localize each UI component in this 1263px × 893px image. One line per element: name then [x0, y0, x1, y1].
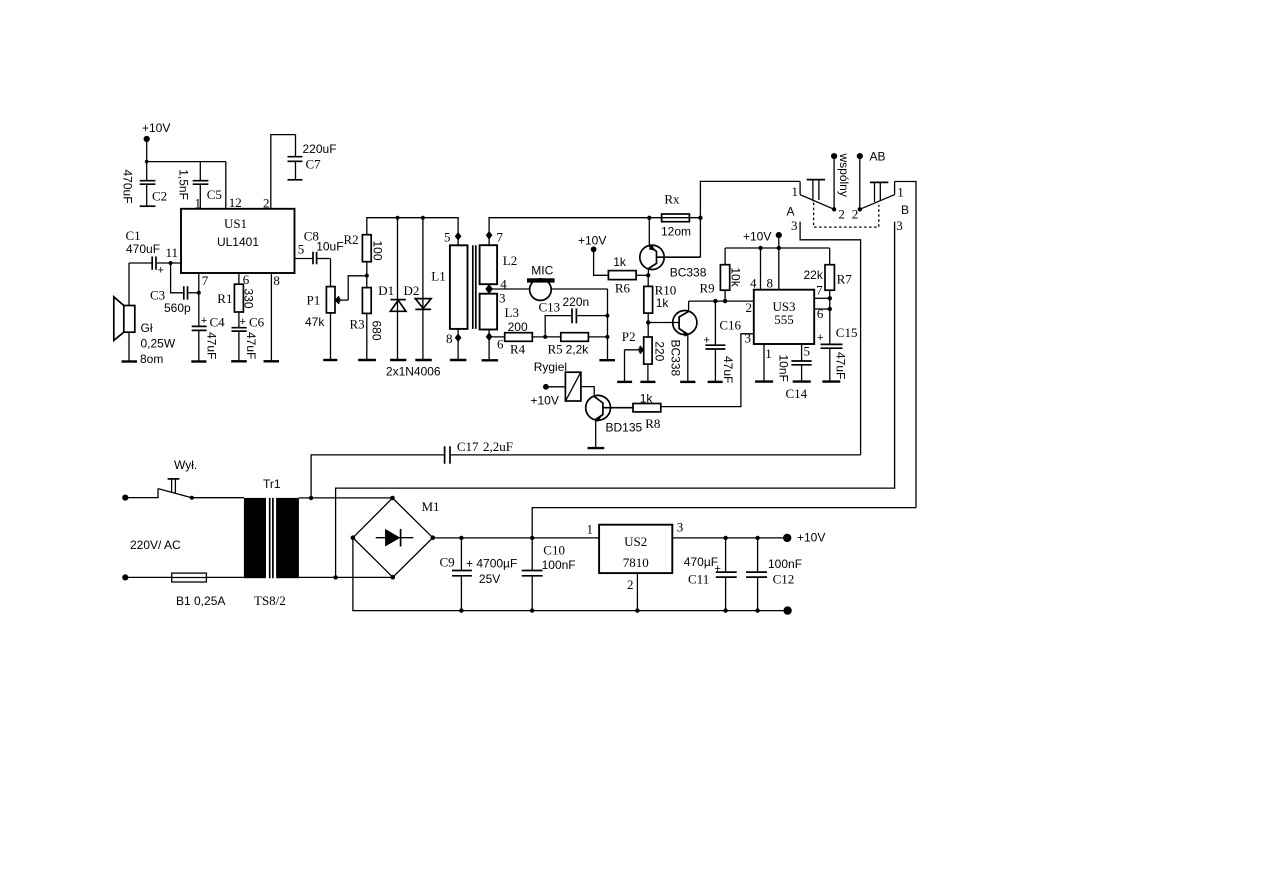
wire pin 6	[238, 273, 240, 284]
terminal +10V output	[783, 531, 825, 545]
junction	[530, 536, 534, 540]
resistor R6	[608, 255, 648, 296]
svg-text:1: 1	[587, 521, 594, 536]
wire B3 riser	[894, 222, 896, 489]
wire positive rail	[433, 537, 599, 539]
speaker Gl	[114, 297, 176, 366]
svg-text:470µF: 470µF	[684, 555, 718, 569]
ground	[191, 360, 206, 362]
resistor R8	[633, 392, 661, 431]
svg-text:5: 5	[804, 343, 811, 358]
svg-text:MIC: MIC	[531, 264, 553, 278]
dashed mechanical link	[814, 203, 879, 228]
svg-text:555: 555	[774, 312, 794, 327]
svg-text:L3: L3	[505, 305, 519, 320]
svg-text:wspólny: wspólny	[837, 153, 851, 197]
ground	[450, 359, 467, 361]
fuse B1	[172, 573, 226, 608]
junction base BC338 second	[646, 320, 650, 324]
svg-text:220: 220	[653, 341, 667, 361]
svg-text:R8: R8	[645, 416, 660, 431]
svg-text:P1: P1	[307, 293, 321, 308]
wire mic branch down	[607, 289, 609, 360]
svg-text:US1: US1	[224, 216, 247, 231]
svg-text:11: 11	[166, 245, 179, 260]
svg-text:47uF: 47uF	[834, 352, 848, 379]
junction pin4	[758, 246, 762, 250]
svg-text:1,5nF: 1,5nF	[177, 169, 191, 200]
svg-text:+10V: +10V	[797, 531, 825, 545]
junction	[723, 536, 727, 540]
transformer winding L2	[480, 229, 518, 284]
junction C16	[713, 299, 717, 303]
capacitor C14	[776, 343, 811, 401]
svg-text:P2: P2	[622, 329, 636, 344]
capacitor C15	[817, 298, 857, 381]
svg-text:2: 2	[852, 207, 859, 222]
svg-text:M1: M1	[422, 499, 440, 514]
svg-text:+10V: +10V	[743, 230, 771, 244]
junction R2/R3	[365, 274, 369, 278]
svg-text:R3: R3	[350, 317, 365, 332]
svg-text:47uF: 47uF	[244, 332, 258, 359]
resistor R7	[804, 248, 853, 298]
svg-text:Wył.: Wył.	[174, 458, 197, 472]
capacitor C1	[126, 228, 164, 277]
capacitor C6	[232, 315, 265, 362]
capacitor C17	[445, 439, 861, 464]
wire riser to C17	[311, 455, 444, 498]
svg-text:+: +	[704, 335, 710, 347]
svg-text:0,25W: 0,25W	[141, 337, 176, 351]
svg-text:D2: D2	[404, 283, 420, 298]
wire pin 8	[270, 273, 272, 361]
svg-text:+: +	[715, 563, 721, 575]
ground	[755, 380, 773, 382]
ground	[231, 360, 247, 362]
svg-text:5: 5	[298, 242, 305, 257]
junction base BC338	[646, 273, 650, 277]
svg-text:BC338: BC338	[668, 340, 682, 377]
svg-text:+: +	[201, 315, 207, 327]
wire B1 to raw supply riser	[895, 182, 916, 508]
svg-text:R7: R7	[837, 271, 853, 286]
wire	[238, 312, 240, 327]
switch B	[852, 182, 909, 234]
terminal negative output	[783, 606, 791, 614]
wire	[206, 576, 244, 578]
svg-text:2: 2	[627, 577, 634, 592]
svg-text:Tr1: Tr1	[263, 477, 281, 491]
junction	[197, 291, 201, 295]
capacitor C4	[192, 315, 225, 362]
svg-text:560p: 560p	[164, 301, 191, 315]
transformer winding L3	[480, 294, 519, 360]
junction	[605, 314, 609, 318]
resistor R9	[700, 248, 743, 301]
svg-text:R6: R6	[615, 281, 631, 296]
ground	[588, 447, 605, 449]
wire switch lead-in	[125, 489, 158, 498]
capacitor C11	[684, 538, 737, 611]
svg-text:1k: 1k	[640, 392, 654, 406]
ground	[599, 359, 615, 361]
svg-text:1: 1	[765, 346, 772, 361]
pin 3 wire to R8	[661, 334, 754, 407]
svg-text:7: 7	[497, 229, 504, 244]
svg-text:3: 3	[499, 291, 506, 306]
svg-text:+: +	[817, 332, 823, 344]
junction pin7	[828, 296, 832, 300]
pin 7 wire	[814, 297, 830, 299]
wire	[147, 161, 226, 163]
svg-text:+10V: +10V	[142, 121, 170, 135]
capacitor C7	[288, 135, 337, 180]
svg-text:22k: 22k	[804, 268, 824, 282]
pin 11 wire	[157, 262, 181, 264]
switch A	[787, 180, 845, 233]
svg-text:C11: C11	[688, 572, 709, 587]
svg-text:Rygiel: Rygiel	[534, 360, 567, 374]
wire secondary top	[299, 497, 393, 499]
capacitor C16	[704, 301, 742, 383]
ground	[482, 359, 499, 361]
transistor Q1 BC338 (oscillator)	[640, 218, 707, 280]
wire collector riser	[700, 181, 800, 257]
capacitor C5	[177, 162, 222, 209]
svg-text:A: A	[787, 205, 795, 219]
relay Rygiel	[534, 360, 595, 401]
svg-text:12: 12	[229, 195, 242, 210]
wire pin 2	[636, 573, 638, 611]
svg-text:C9: C9	[440, 555, 455, 570]
svg-text:L2: L2	[503, 253, 517, 268]
resistor R1	[217, 284, 255, 312]
ground	[264, 360, 280, 362]
ground	[358, 359, 376, 361]
svg-text:R5: R5	[548, 342, 563, 357]
svg-text:6: 6	[817, 306, 824, 321]
potentiometer P1	[305, 276, 367, 360]
svg-text:2: 2	[746, 300, 753, 315]
svg-text:680: 680	[369, 321, 383, 341]
svg-text:8: 8	[767, 276, 774, 291]
svg-text:7: 7	[202, 273, 209, 288]
svg-text:7: 7	[816, 282, 823, 297]
svg-text:C14: C14	[786, 386, 808, 401]
svg-text:220uF: 220uF	[303, 142, 337, 156]
svg-text:2,2uF: 2,2uF	[483, 439, 513, 454]
wire pin 12	[225, 162, 227, 209]
wire	[125, 576, 171, 578]
svg-text:R1: R1	[217, 291, 232, 306]
terminal dot mains bottom	[122, 574, 128, 580]
pin 1 wire	[763, 344, 765, 381]
op-amp U1 box: IC US1 UL1401	[181, 209, 295, 273]
wire pin 2	[271, 135, 296, 209]
svg-text:2x1N4006: 2x1N4006	[386, 365, 441, 379]
wire R10	[647, 275, 649, 286]
svg-text:10uF: 10uF	[316, 239, 343, 253]
svg-text:1: 1	[792, 184, 799, 199]
terminal dot mains top	[122, 495, 128, 501]
capacitor C3	[150, 286, 199, 315]
resistor R10	[644, 283, 676, 337]
svg-text:R4: R4	[510, 342, 526, 357]
svg-text:10nF: 10nF	[776, 355, 790, 382]
wire C3 branch	[171, 263, 183, 293]
junction	[530, 608, 534, 612]
node wspolny A	[831, 153, 837, 209]
svg-text:12om: 12om	[661, 224, 691, 238]
svg-text:3: 3	[791, 218, 798, 233]
svg-text:5: 5	[444, 230, 451, 245]
svg-text:C2: C2	[152, 189, 167, 204]
svg-text:C12: C12	[773, 572, 795, 587]
svg-text:C16: C16	[719, 318, 741, 333]
transistor Q2 BC338 (keying)	[668, 301, 697, 382]
bridge rectifier M1	[351, 496, 440, 580]
capacitor C13	[539, 295, 608, 337]
microphone MIC	[527, 264, 555, 301]
svg-text:3: 3	[677, 519, 684, 534]
junction	[755, 536, 759, 540]
svg-text:220V/ AC: 220V/ AC	[130, 538, 181, 552]
svg-text:470uF: 470uF	[126, 242, 160, 256]
capacitor C2	[121, 162, 168, 207]
svg-text:C1: C1	[126, 228, 141, 243]
node +10V (R6)	[578, 234, 608, 276]
junction	[309, 496, 313, 500]
junction Rx right	[698, 216, 702, 220]
svg-text:UL1401: UL1401	[217, 235, 259, 249]
junction	[459, 608, 463, 612]
wire output rail	[672, 537, 784, 539]
diode D2	[404, 218, 432, 360]
svg-text:330: 330	[242, 289, 256, 309]
ground	[793, 380, 811, 382]
svg-text:+ 4700µF: + 4700µF	[466, 557, 517, 571]
junction D1 top	[396, 216, 400, 220]
junction	[635, 608, 639, 612]
wire A3 riser (C17 to switch A)	[800, 222, 861, 455]
transistor Q3 BD135	[586, 395, 643, 448]
svg-text:8: 8	[273, 273, 280, 288]
svg-text:1k: 1k	[656, 296, 670, 310]
svg-text:200: 200	[508, 320, 528, 334]
wire top rail (primary)	[367, 218, 458, 246]
svg-text:AB: AB	[870, 150, 886, 164]
ground	[122, 360, 138, 362]
wire pin 4	[760, 248, 762, 290]
node +10V (relay)	[531, 384, 566, 408]
svg-text:7810: 7810	[623, 555, 649, 570]
svg-text:C3: C3	[150, 288, 165, 303]
capacitor C8	[304, 228, 344, 264]
svg-text:47k: 47k	[305, 315, 325, 329]
svg-text:2: 2	[838, 206, 845, 221]
svg-text:B1 0,25A: B1 0,25A	[176, 594, 225, 608]
junction R9	[723, 299, 727, 303]
junction pin8	[777, 246, 781, 250]
svg-text:R2: R2	[344, 232, 359, 247]
junction	[755, 608, 759, 612]
wire pin 7	[198, 273, 200, 326]
svg-text:2,2k: 2,2k	[566, 343, 590, 357]
transformer Tr1	[244, 477, 299, 608]
svg-text:+: +	[240, 316, 246, 328]
transformer winding L1	[431, 230, 467, 360]
svg-text:47uF: 47uF	[721, 356, 735, 383]
svg-text:4: 4	[750, 276, 757, 291]
svg-text:100nF: 100nF	[542, 558, 576, 572]
capacitor C12	[746, 538, 802, 611]
wire secondary bottom	[299, 576, 393, 578]
capacitor C10	[522, 538, 576, 611]
svg-text:+10V: +10V	[531, 394, 559, 408]
svg-text:US2: US2	[624, 534, 647, 549]
wire secondary top rail	[489, 218, 700, 246]
svg-text:+10V: +10V	[578, 234, 606, 248]
ground	[390, 359, 406, 361]
svg-text:R9: R9	[700, 281, 715, 296]
regulator U2 box: IC US2 7810	[587, 519, 684, 592]
capacitor C9	[440, 538, 518, 611]
junction	[459, 536, 463, 540]
junction	[333, 575, 337, 579]
svg-text:3: 3	[896, 218, 903, 233]
svg-text:L1: L1	[431, 269, 445, 284]
junction	[605, 335, 609, 339]
ground	[415, 359, 432, 361]
ground	[708, 381, 723, 383]
node +10V (US1 supply)	[142, 121, 170, 162]
ground (P2 wiper)	[617, 381, 632, 383]
svg-text:8: 8	[446, 331, 453, 346]
junction pin6	[828, 307, 832, 311]
junction	[145, 160, 149, 164]
potentiometer P2	[622, 329, 667, 382]
svg-text:25V: 25V	[479, 572, 500, 586]
wire to P1	[330, 259, 332, 287]
ground	[680, 381, 695, 383]
svg-text:BD135: BD135	[606, 421, 643, 435]
wire base	[648, 322, 679, 324]
node wspolny B (AB)	[857, 150, 886, 210]
junction Rx left	[647, 216, 651, 220]
wire	[366, 262, 368, 288]
junction	[723, 608, 727, 612]
svg-text:C10: C10	[543, 543, 565, 558]
svg-text:220n: 220n	[563, 295, 590, 309]
pin 6 wire	[814, 308, 830, 310]
svg-text:1k: 1k	[613, 255, 627, 269]
svg-text:BC338: BC338	[670, 265, 707, 279]
svg-text:D1: D1	[378, 283, 394, 298]
switch Wyl	[158, 458, 197, 500]
pin 5 wire	[295, 258, 313, 260]
svg-text:C6: C6	[249, 315, 265, 330]
ground	[822, 380, 840, 382]
svg-text:+: +	[158, 265, 164, 277]
svg-text:C13: C13	[539, 299, 561, 314]
svg-text:C15: C15	[836, 325, 858, 340]
svg-text:B: B	[901, 203, 909, 217]
svg-text:100nF: 100nF	[768, 557, 802, 571]
resistor R3	[350, 288, 384, 360]
svg-text:1: 1	[897, 185, 904, 200]
svg-text:C4: C4	[210, 315, 226, 330]
junction D2 top	[421, 216, 425, 220]
wire collector to 555 pin2	[689, 300, 754, 302]
ground	[323, 359, 337, 361]
transformer core	[473, 245, 476, 329]
svg-text:100: 100	[371, 241, 385, 261]
resistor Rx	[661, 192, 691, 239]
node 4 junction	[485, 277, 507, 306]
wire riser to B wire	[336, 488, 896, 577]
svg-text:10k: 10k	[729, 267, 743, 287]
svg-text:47uF: 47uF	[205, 332, 219, 359]
junction	[169, 261, 173, 265]
svg-text:Gł: Gł	[141, 321, 153, 335]
svg-text:8om: 8om	[140, 352, 163, 366]
timer U3 box: IC US3 555	[754, 290, 814, 344]
wire	[192, 497, 244, 499]
svg-text:470uF: 470uF	[121, 170, 135, 204]
svg-text:TS8/2: TS8/2	[254, 593, 286, 608]
svg-text:6: 6	[497, 337, 504, 352]
resistor R4	[489, 320, 545, 357]
wire +10V rail	[725, 247, 830, 249]
svg-text:C17: C17	[457, 439, 479, 454]
wire negative rail	[353, 538, 785, 611]
wire raw supply to B1 contact	[532, 508, 916, 538]
ground (P2)	[640, 381, 655, 383]
resistor R2	[344, 232, 385, 262]
resistor R5	[545, 333, 607, 357]
junction	[543, 335, 547, 339]
svg-text:Rx: Rx	[664, 192, 680, 207]
svg-text:C5: C5	[207, 187, 222, 202]
diode D1	[378, 218, 406, 360]
wire to speaker	[128, 263, 130, 306]
node +10V (555)	[743, 230, 782, 290]
wire node4 to mic	[489, 288, 607, 290]
svg-text:C7: C7	[306, 157, 322, 172]
svg-text:3: 3	[745, 331, 752, 346]
